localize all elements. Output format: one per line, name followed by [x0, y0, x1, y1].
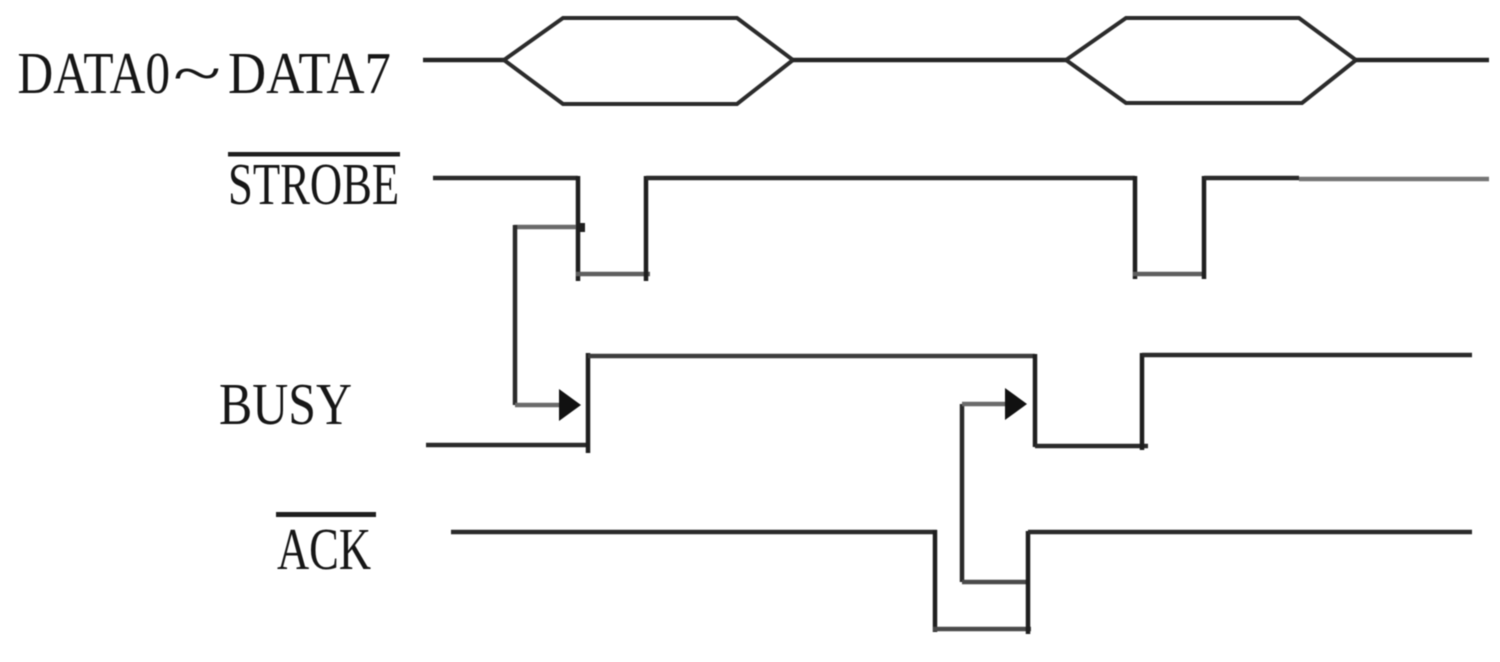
- annotation 2 bottom horizontal to ACK rising edge: [962, 580, 1029, 585]
- wire STROBE high segment 3 dark part: [1204, 176, 1299, 181]
- wire ACK falling edge: [933, 530, 938, 632]
- arrowhead 2 pointing at BUSY falling edge: [1005, 388, 1027, 420]
- wire BUSY rising edge 1: [586, 353, 591, 453]
- wire BUSY high segment 2: [1142, 353, 1472, 358]
- annotation 1 junction nub at STROBE falling edge: [576, 223, 585, 232]
- annotation 2 vertical line: [960, 404, 965, 582]
- svg-text:ACK: ACK: [277, 517, 371, 582]
- wire ACK high segment right: [1028, 530, 1472, 535]
- annotation 2 top horizontal toward BUSY falling edge: [962, 402, 1007, 407]
- svg-text:BUSY: BUSY: [219, 371, 352, 437]
- wire ACK low segment: [933, 627, 1031, 632]
- wire BUSY falling edge: [1033, 354, 1038, 447]
- wire BUSY high segment 1: [588, 354, 1035, 359]
- wire STROBE falling edge 2: [1133, 176, 1138, 279]
- svg-text:STROBE: STROBE: [228, 152, 399, 217]
- bus-valid hexagon 1 on DATA0~DATA7: [504, 18, 793, 104]
- annotation 1 top horizontal from STROBE falling edge: [514, 225, 576, 230]
- wire BUSY rising edge 2: [1140, 353, 1145, 450]
- wire STROBE low segment 1: [576, 272, 650, 277]
- svg-text:DATA7: DATA7: [228, 41, 391, 106]
- bus-valid hexagon 2 on DATA0~DATA7: [1066, 18, 1356, 103]
- annotation 1 bottom horizontal toward BUSY rising edge: [515, 403, 561, 408]
- arrowhead 1 pointing at BUSY rising edge: [559, 389, 581, 421]
- wire BUSY low segment middle: [1035, 444, 1148, 449]
- wire DATA lead-in segment: [423, 58, 506, 63]
- svg-text:~: ~: [173, 41, 221, 106]
- wire STROBE low segment 2: [1133, 272, 1206, 277]
- signal label DATA0~DATA7: [18, 40, 391, 107]
- wire STROBE high segment 2: [646, 176, 1135, 181]
- wire BUSY low segment left: [426, 443, 590, 448]
- overline of ACK label: [276, 512, 376, 517]
- wire STROBE rising edge 2: [1202, 176, 1207, 279]
- wire STROBE rising edge 1: [644, 176, 649, 281]
- wire ACK rising edge: [1026, 531, 1031, 634]
- wire STROBE high segment 3 light part: [1299, 177, 1489, 182]
- wire DATA middle segment: [793, 58, 1066, 63]
- wire DATA tail segment: [1356, 58, 1489, 63]
- wire STROBE falling edge 1: [576, 176, 581, 281]
- annotation 1 vertical line: [513, 225, 518, 405]
- wire STROBE high segment 1: [433, 176, 578, 181]
- svg-text:DATA0: DATA0: [18, 40, 171, 106]
- wire ACK high segment left: [451, 530, 937, 535]
- overline of STROBE label: [228, 152, 400, 157]
